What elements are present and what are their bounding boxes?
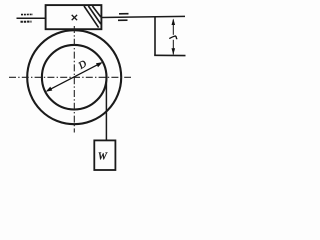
ground right pivot hatch lower [118,19,128,21]
ground left wall hatch upper [21,13,33,15]
outer circle drum rim [27,30,121,124]
label W [99,153,108,160]
ground left wall hatch lower [21,21,32,23]
x mark on block [72,15,77,20]
wire bracket bottom arm [154,54,185,56]
label l [169,35,178,40]
dimension line l with arrows [172,20,174,55]
wire bracket vertical drop [154,17,156,55]
wire right rod lever from block to right end [101,16,185,17]
rope from drum to weight [105,78,107,142]
vertical centerline [73,26,75,133]
weight box [94,140,115,170]
diameter arrow D [48,63,101,91]
wire left rod from wall to brake block [17,17,47,19]
brake shoe block [46,5,102,29]
horizontal centerline [9,76,131,78]
label D [78,60,88,69]
ground right pivot hatch upper [119,13,129,15]
inner circle drum hub [42,45,107,110]
hatch lines on block right end [84,6,101,28]
